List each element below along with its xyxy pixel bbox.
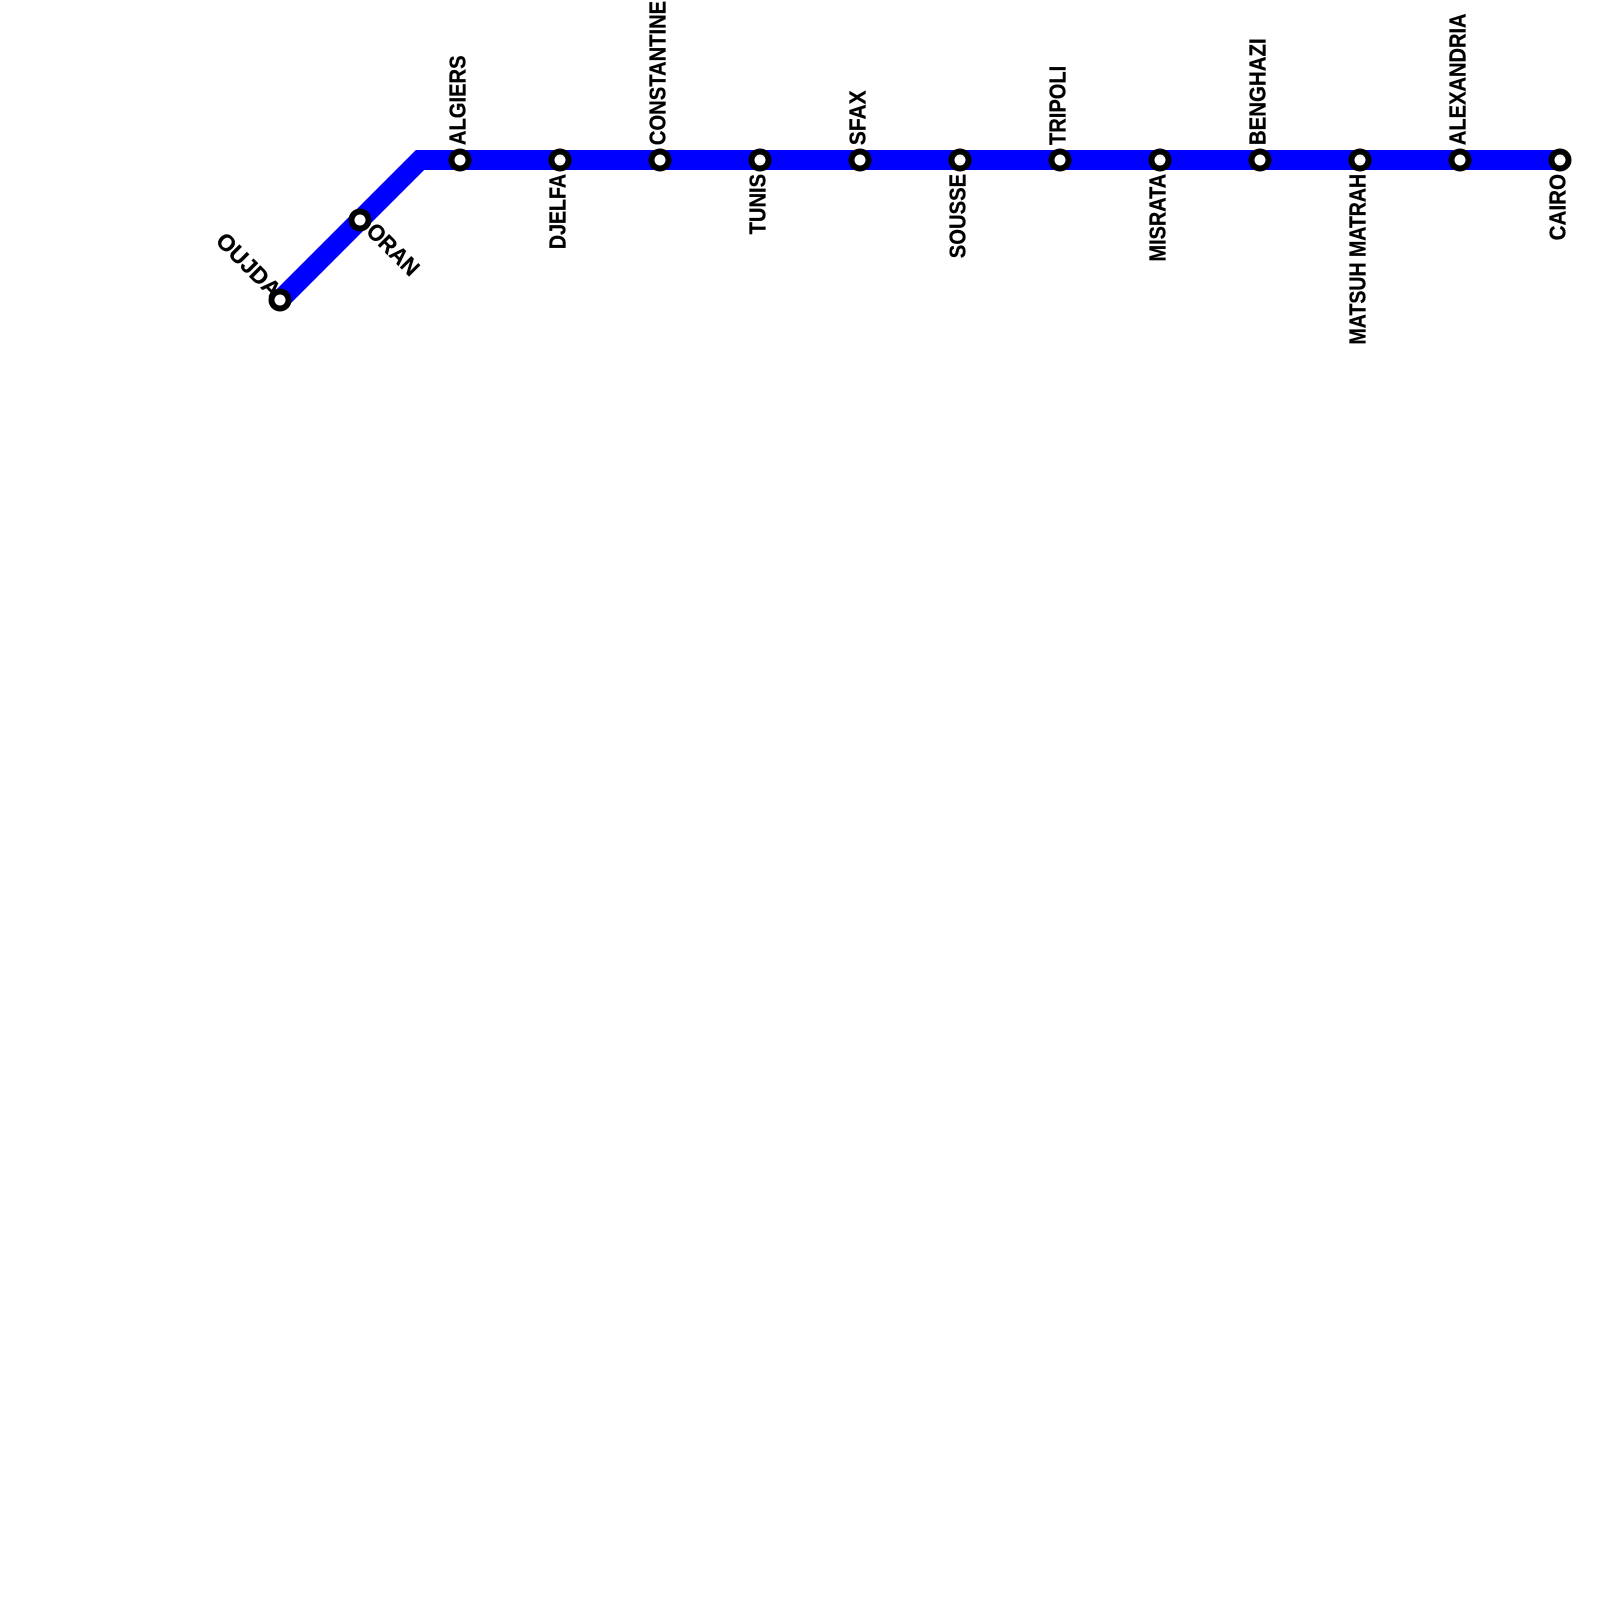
station DJELFA marker bbox=[552, 152, 569, 169]
svg-text:ALGIERS: ALGIERS bbox=[444, 55, 471, 145]
svg-text:TUNIS: TUNIS bbox=[744, 174, 771, 234]
station SOUSSE marker bbox=[952, 152, 969, 169]
station TRIPOLI marker bbox=[1052, 152, 1069, 169]
station CONSTANTINE marker bbox=[652, 152, 669, 169]
svg-text:CONSTANTINE: CONSTANTINE bbox=[644, 1, 671, 145]
station ALEXANDRIA marker bbox=[1452, 152, 1469, 169]
station MATSUH MATRAH marker bbox=[1352, 152, 1369, 169]
svg-text:TRIPOLI: TRIPOLI bbox=[1044, 66, 1071, 145]
station MISRATA marker bbox=[1152, 152, 1169, 169]
svg-text:SOUSSE: SOUSSE bbox=[944, 174, 971, 258]
metro line (blue) bbox=[280, 160, 1560, 300]
station BENGHAZI marker bbox=[1252, 152, 1269, 169]
svg-text:ALEXANDRIA: ALEXANDRIA bbox=[1444, 13, 1471, 145]
station CAIRO marker bbox=[1552, 152, 1569, 169]
station SFAX marker bbox=[852, 152, 869, 169]
station TUNIS marker bbox=[752, 152, 769, 169]
svg-text:DJELFA: DJELFA bbox=[545, 174, 571, 249]
station OUJDA marker bbox=[272, 292, 289, 309]
svg-text:BENGHAZI: BENGHAZI bbox=[1244, 38, 1270, 145]
svg-text:CAIRO: CAIRO bbox=[1545, 174, 1571, 240]
station ALGIERS marker bbox=[452, 152, 469, 169]
svg-text:SFAX: SFAX bbox=[845, 90, 871, 145]
svg-text:MISRATA: MISRATA bbox=[1145, 174, 1171, 262]
svg-text:MATSUH MATRAH: MATSUH MATRAH bbox=[1345, 174, 1371, 345]
station ORAN marker bbox=[352, 212, 369, 229]
